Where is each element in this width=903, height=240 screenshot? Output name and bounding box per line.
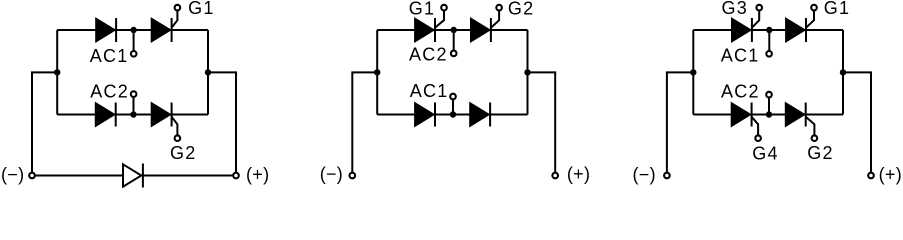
svg-text:G3: G3 xyxy=(722,0,749,18)
svg-text:AC1: AC1 xyxy=(90,46,129,66)
svg-text:G2: G2 xyxy=(170,143,197,163)
svg-text:G1: G1 xyxy=(188,0,215,18)
svg-text:(+): (+) xyxy=(879,165,902,185)
svg-text:AC1: AC1 xyxy=(721,46,760,66)
svg-text:AC2: AC2 xyxy=(721,81,760,101)
svg-text:(+): (+) xyxy=(246,165,269,185)
svg-text:AC1: AC1 xyxy=(410,81,449,101)
svg-text:AC2: AC2 xyxy=(409,44,448,64)
svg-text:(−): (−) xyxy=(633,165,656,185)
svg-text:(−): (−) xyxy=(320,164,343,184)
svg-text:AC2: AC2 xyxy=(90,81,129,101)
svg-text:G1: G1 xyxy=(824,0,851,18)
svg-text:G1: G1 xyxy=(409,0,436,19)
svg-text:G2: G2 xyxy=(807,143,834,163)
svg-text:(−): (−) xyxy=(1,165,24,185)
svg-text:G2: G2 xyxy=(508,0,535,19)
svg-text:G4: G4 xyxy=(752,144,779,164)
svg-text:(+): (+) xyxy=(567,164,590,184)
